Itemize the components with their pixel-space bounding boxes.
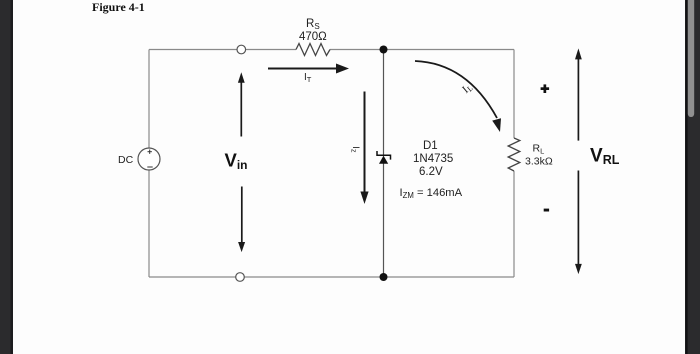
svg-text:DC: DC [118,154,134,166]
wire middle branch lower [383,164,385,278]
polarity plus [541,84,550,93]
wire right branch upper [513,50,515,139]
node: open terminal bottom [236,273,245,282]
wire left upper [148,50,150,149]
current arrow I_T [268,64,349,74]
svg-text:3.3kΩ: 3.3kΩ [525,156,553,168]
wire bottom [149,276,514,278]
wire right branch lower [513,171,515,277]
DC source minus [147,166,152,168]
node: junction bottom [380,273,388,281]
svg-text:1N4735: 1N4735 [413,153,453,165]
node: open terminal top [237,45,246,54]
svg-text:470Ω: 470Ω [299,31,327,43]
DC source circle [138,148,160,170]
zener diode D1 [377,151,391,164]
scrollbar thumb [688,0,694,117]
curved load-current arrow [415,61,501,132]
left sidebar [0,0,13,354]
wire top-left segment [149,49,296,51]
wire middle branch upper [383,50,385,156]
polarity minus [544,209,549,212]
DC source plus [148,150,152,154]
V_in arrow lower [238,187,245,253]
resistor R_S zigzag [296,44,330,56]
wire top-right segment [330,49,514,51]
svg-text:6.2V: 6.2V [419,166,443,178]
wire left lower [148,170,150,277]
V_RL arrow upper [575,48,582,140]
current arrow I_Z [360,92,368,205]
node: junction top [380,46,388,54]
V_RL arrow lower [575,171,582,275]
svg-text:Figure 4-1: Figure 4-1 [92,0,145,14]
svg-text:D1: D1 [423,140,438,152]
resistor R_L zigzag [508,138,520,171]
V_in arrow upper [238,72,245,136]
right sidebar [685,0,700,354]
